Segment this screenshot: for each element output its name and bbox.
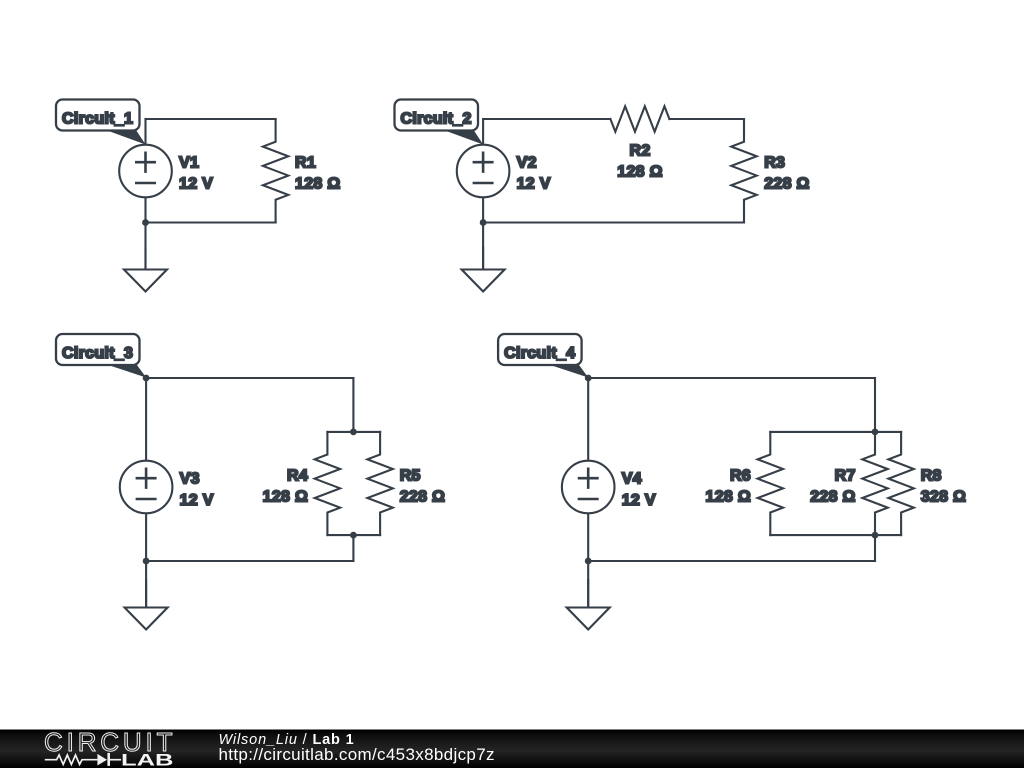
node junction dot R7 bottom <box>872 532 879 539</box>
voltage source V1 <box>119 145 172 198</box>
svg-text:R5: R5 <box>400 467 421 484</box>
label V3 12 V <box>180 471 214 509</box>
wire top-right Circuit_2 <box>669 118 744 120</box>
voltage source V2 <box>457 145 510 198</box>
svg-text:228 Ω: 228 Ω <box>810 488 855 505</box>
svg-text:12 V: 12 V <box>517 176 551 193</box>
wire top-left Circuit_2 <box>483 118 610 120</box>
svg-text:Circuit_1: Circuit_1 <box>62 111 133 128</box>
voltage source V3 <box>120 461 173 514</box>
ground GND3 <box>125 580 168 630</box>
footer url <box>219 745 495 764</box>
svg-text:128 Ω: 128 Ω <box>263 488 308 505</box>
callout Circuit_4 <box>498 334 588 378</box>
wire source V4 bottom lead to ground <box>587 513 589 607</box>
footer title Wilson_Liu / Lab 1 <box>219 732 355 748</box>
node junction dot R7 top <box>872 429 879 436</box>
wire bracket stem Circuit_3 <box>352 535 354 561</box>
svg-text:228 Ω: 228 Ω <box>400 488 445 505</box>
wire bracket bottom Circuit_3 <box>327 534 380 536</box>
svg-text:128 Ω: 128 Ω <box>295 176 340 193</box>
resistor R7 <box>862 432 887 535</box>
svg-text:Circuit_2: Circuit_2 <box>401 111 472 128</box>
node junction dot Circuit_1 bottom <box>142 219 149 226</box>
wire bottom Circuit_1 <box>146 221 276 223</box>
svg-text:328 Ω: 328 Ω <box>921 488 966 505</box>
wire source V2 bottom lead to ground <box>482 197 484 269</box>
label R6 128 Ω <box>706 467 751 505</box>
resistor R6 <box>758 432 783 535</box>
node junction dot Circuit_4 top <box>585 375 592 382</box>
svg-text:V4: V4 <box>622 471 642 488</box>
wire source V1 top lead <box>144 119 146 145</box>
node junction dot R4R5 bottom <box>350 532 357 539</box>
resistor R1 <box>263 119 288 223</box>
wire source V3 top lead <box>145 378 147 461</box>
svg-text:R4: R4 <box>287 467 308 484</box>
label R4 128 Ω <box>263 467 308 505</box>
label R2 128 Ω <box>617 143 662 181</box>
footer bar <box>0 730 1024 768</box>
CircuitLab logo CIRCUIT wordmark <box>44 727 173 757</box>
wire bracket top Circuit_4 <box>770 431 901 433</box>
wire source V1 bottom lead to ground <box>144 197 146 269</box>
CircuitLab logo LAB wordmark <box>121 751 174 768</box>
label R7 228 Ω <box>810 467 855 505</box>
label R5 228 Ω <box>400 467 445 505</box>
svg-text:228 Ω: 228 Ω <box>764 176 809 193</box>
CircuitLab logo resistor-diode glyph <box>45 753 121 766</box>
wire bracket bottom Circuit_4 <box>770 534 901 536</box>
resistor R3 <box>731 119 756 223</box>
svg-text:12 V: 12 V <box>180 492 214 509</box>
wire bottom Circuit_3 <box>146 560 353 562</box>
wire source V4 top lead <box>587 378 589 461</box>
resistor R5 <box>367 432 392 535</box>
wire bracket stem Circuit_4 <box>874 535 876 561</box>
voltage source V4 <box>562 461 615 514</box>
label R8 328 Ω <box>921 467 966 505</box>
svg-text:R7: R7 <box>835 467 856 484</box>
node junction dot Circuit_3 top <box>143 375 150 382</box>
wire top Circuit_4 <box>588 377 875 379</box>
callout Circuit_1 <box>56 100 146 145</box>
label R1 128 Ω <box>295 155 340 193</box>
resistor R2 <box>610 106 669 131</box>
wire right vertical Circuit_3 <box>352 378 354 432</box>
resistor R8 <box>888 432 913 535</box>
svg-text:R1: R1 <box>295 155 316 172</box>
svg-text:128 Ω: 128 Ω <box>706 488 751 505</box>
wire bracket top Circuit_3 <box>327 431 380 433</box>
svg-text:12 V: 12 V <box>179 176 213 193</box>
wire right vertical Circuit_4 <box>874 378 876 432</box>
svg-text:Circuit_3: Circuit_3 <box>62 345 133 362</box>
svg-text:V2: V2 <box>517 155 537 172</box>
callout Circuit_2 <box>395 100 484 145</box>
callout Circuit_3 <box>56 334 146 378</box>
svg-text:V1: V1 <box>179 155 199 172</box>
svg-text:http://circuitlab.com/c453x8bd: http://circuitlab.com/c453x8bdjcp7z <box>219 745 495 764</box>
label V2 12 V <box>517 155 551 193</box>
svg-text:R8: R8 <box>921 467 942 484</box>
svg-text:LAB: LAB <box>121 751 174 768</box>
svg-text:R3: R3 <box>764 155 785 172</box>
wire source V3 bottom lead to ground <box>145 513 147 607</box>
wire bottom Circuit_4 <box>588 560 875 562</box>
node junction dot R4R5 top <box>350 429 357 436</box>
svg-text:R6: R6 <box>730 467 751 484</box>
svg-text:Circuit_4: Circuit_4 <box>504 345 575 362</box>
node junction dot Circuit_4 bottom <box>585 558 592 565</box>
node junction dot Circuit_3 bottom <box>143 558 150 565</box>
label R3 228 Ω <box>764 155 809 193</box>
ground GND2 <box>462 248 505 292</box>
ground GND1 <box>124 248 167 292</box>
wire top Circuit_3 <box>146 377 353 379</box>
svg-text:128 Ω: 128 Ω <box>617 164 662 181</box>
wire top Circuit_1 <box>146 118 276 120</box>
label V1 12 V <box>179 155 213 193</box>
svg-text:12 V: 12 V <box>622 492 656 509</box>
ground GND4 <box>567 580 610 630</box>
node junction dot Circuit_2 bottom <box>480 219 487 226</box>
svg-text:R2: R2 <box>629 143 650 160</box>
wire bottom Circuit_2 <box>483 221 744 223</box>
svg-text:V3: V3 <box>180 471 200 488</box>
wire source V2 top lead <box>482 119 484 145</box>
resistor R4 <box>315 432 340 535</box>
label V4 12 V <box>622 471 656 509</box>
